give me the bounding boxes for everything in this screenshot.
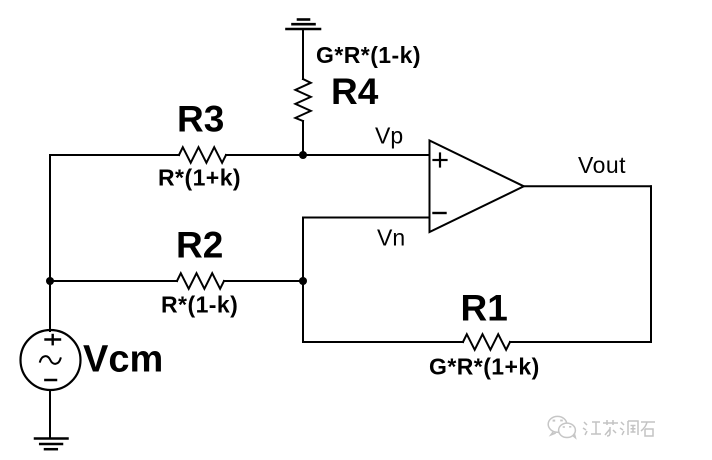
wire R4 to node Vp [302,121,304,155]
resistor R3 [179,147,226,163]
svg-text:Vcm: Vcm [83,339,163,381]
wire Vp left segment [50,154,179,156]
润 [620,421,638,435]
svg-text:G*R*(1+k): G*R*(1+k) [429,354,540,380]
resistor R2 [177,273,224,289]
svg-text:R4: R4 [331,71,379,112]
svg-text:R*(1-k): R*(1-k) [161,292,238,318]
source Vcm sine symbol [40,356,61,364]
svg-text:R*(1+k): R*(1+k) [158,165,241,191]
node Vn junction dot [299,277,307,285]
wire Vp to op-amp + [226,154,430,156]
石 [641,422,655,436]
source Vcm - sign [45,379,56,382]
wire Vout [524,185,651,187]
江 [583,422,601,435]
svg-text:Vn: Vn [377,225,405,251]
svg-text:R3: R3 [177,99,224,140]
ground top (inverted, for R4) [287,20,321,30]
wire R1 to right vertical [510,341,651,343]
wire R2 left segment [50,280,177,282]
resistor R1 [463,334,510,350]
resistor R4 [295,79,310,121]
svg-text:Vp: Vp [375,123,403,149]
watermark text 江苏润石 (drawn strokes) [583,420,655,436]
wire Vcm to ground [49,390,51,439]
wire R2 to mid vertical [224,280,303,282]
wire right vertical (feedback) [650,186,652,342]
wire ground to R4 [302,29,304,79]
op-amp + input symbol [434,154,447,167]
svg-text:R1: R1 [461,288,508,329]
svg-text:R2: R2 [176,225,223,266]
node Vp junction dot [299,151,307,159]
wire left vertical [49,155,51,331]
op-amp - input symbol [434,212,446,214]
source Vcm circle [21,330,81,390]
wire Vn to op-amp - [303,217,430,219]
svg-text:G*R*(1-k): G*R*(1-k) [316,42,421,68]
op-amp U1 [430,141,524,233]
ground bottom [35,439,68,450]
苏 [603,420,618,436]
node left junction dot [46,277,54,285]
wire mid vertical Vn-R1 [302,218,304,343]
watermark logo (chat bubbles) [548,416,575,437]
source Vcm + sign [46,335,61,344]
wire R1 left segment [303,341,463,343]
svg-text:Vout: Vout [578,152,626,178]
